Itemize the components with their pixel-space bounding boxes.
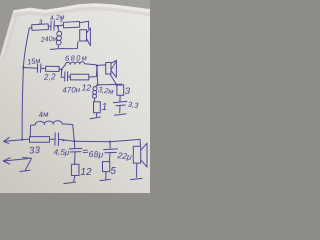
capacitor C7 68u [104,142,118,162]
resistor R6 3 [119,83,121,86]
paper sheet [0,4,150,194]
desk background [0,0,150,193]
wire node B to speaker SP2 [97,64,106,67]
wire top row lead [29,27,32,28]
speaker SP1 [80,30,87,41]
wire bottom main [74,139,140,141]
left rail wire [22,28,29,138]
svg-text:12: 12 [80,167,92,178]
resistor R9 5 [103,162,110,172]
svg-text:12: 12 [82,82,92,92]
capacitor C4 3,3 [113,101,127,105]
node J6 [73,140,75,142]
resistor R1 3 [32,24,49,31]
svg-text:470н: 470н [62,85,81,95]
resistor R4 12 [70,74,89,80]
svg-text:22μ: 22μ [116,150,133,162]
svg-text:680м: 680м [65,53,89,63]
wire [54,25,60,27]
ground tick C4 [114,114,126,115]
wire [50,138,55,140]
capacitor C1 4,2m [51,21,55,30]
wire [105,172,107,179]
speaker SP3 [139,139,142,146]
resistor R7 33 [30,137,50,143]
speaker SP2 [106,63,111,75]
labels [26,14,139,178]
inductor L2 680m top branch [62,62,97,70]
node J1 [57,25,59,27]
wire up to node B [89,67,97,78]
svg-text:3,3: 3,3 [127,100,139,110]
node J5 [21,139,23,141]
ground bar under L1 [51,48,64,49]
wire bottom branch down [61,70,64,78]
svg-text:4,5μ: 4,5μ [54,147,70,157]
svg-text:2,2: 2,2 [43,71,57,82]
ground tick SP3 [131,178,142,179]
wire [48,25,51,27]
wire [59,139,75,141]
node J2 on rail [22,66,24,68]
wire [41,67,46,69]
svg-text:240м: 240м [40,36,58,44]
capacitor C5 [55,133,59,146]
equals mark [83,150,88,153]
resistor R5 1 [94,102,101,113]
capacitor C2 15m [37,64,41,72]
capacitor C3 470n [65,72,68,81]
wire [96,113,98,117]
wire mid rail [98,83,122,86]
svg-text:5: 5 [110,166,116,177]
node J3 [97,84,99,86]
inductor L4 4m parallel loop [30,121,74,141]
wire [59,68,62,70]
inductor L1 240m [58,26,59,31]
node B [96,65,98,67]
wire [23,67,37,70]
wire SP3 bottom lead [136,163,138,177]
svg-text:15м: 15м [26,56,41,67]
input arrow 2 [3,158,31,172]
wire to speaker SP1 [80,21,89,28]
inductor L3 3,2m [95,85,97,87]
resistor R3 2,2 [46,66,60,71]
node J4 [115,83,117,85]
paper edge bright rim [14,5,151,12]
node J7 [109,141,111,143]
ground tick R9 [100,179,110,180]
wire R2 left lead [61,24,64,27]
ground tick R5 [90,117,100,119]
node A [61,68,63,70]
svg-text:4м: 4м [38,109,49,119]
resistor R2 3 [63,21,79,27]
wire speaker SP1 bottom lead [63,41,78,49]
wire [119,95,121,101]
resistor R8 12 [71,164,79,175]
svg-text:3: 3 [125,86,131,97]
svg-text:33: 33 [29,145,41,157]
wire [68,76,71,78]
wire SP2 bottom lead [110,74,116,84]
ground tick R8 [64,182,76,184]
wire node B down [96,67,99,85]
capacitor C6 4,5u [69,141,82,164]
paper edge soft shadow [14,9,151,16]
svg-text:68μ: 68μ [88,149,103,160]
wire [74,176,75,182]
svg-text:1: 1 [102,102,108,113]
node J8 [62,139,64,141]
wire [119,106,121,113]
input arrow 1 [4,138,30,144]
